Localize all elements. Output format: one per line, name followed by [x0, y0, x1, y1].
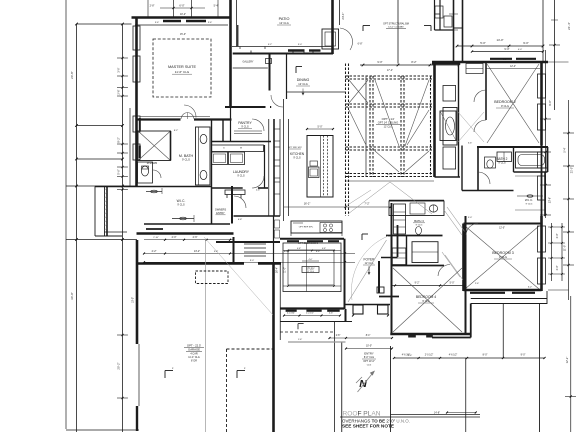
top dim ticks master wall [160, 7, 205, 9]
pantry bottom wall [212, 141, 272, 143]
master top window sill 2 [186, 20, 206, 23]
wic-garage dim row 1 [144, 239, 233, 241]
svg-text:14'-8": 14'-8" [434, 412, 440, 415]
entry dim row y315 [284, 315, 340, 317]
kitchen east counter wall [389, 200, 444, 202]
pantry left wall [230, 108, 232, 142]
svg-text:KITCHEN: KITCHEN [290, 152, 305, 156]
dining arrow mark [302, 89, 304, 95]
svg-text:BATH 2: BATH 2 [497, 157, 508, 161]
mud room boxes [275, 220, 280, 228]
powder south wall [381, 257, 398, 259]
svg-text:MASTER SUITE: MASTER SUITE [168, 65, 197, 69]
svg-text:4'-0": 4'-0" [309, 259, 313, 261]
bath2 toilet [485, 157, 496, 168]
svg-text:OPT - 14': OPT - 14' [382, 117, 395, 121]
svg-text:6'-8": 6'-8" [358, 43, 363, 46]
svg-text:8'-0": 8'-0" [483, 354, 488, 357]
svg-text:4'-0": 4'-0" [172, 236, 177, 239]
svg-text:OPT REF SPC: OPT REF SPC [299, 227, 314, 229]
hall built-in box bottom [443, 147, 456, 169]
hall east wall x458 [458, 64, 460, 178]
study top wall sills [287, 240, 299, 242]
svg-text:9'-0": 9'-0" [521, 354, 526, 357]
svg-text:16'-4": 16'-4" [276, 267, 279, 273]
hall built-in box top [443, 86, 456, 102]
garage sight diagonal [204, 237, 273, 315]
kitchen island [307, 136, 333, 198]
owners entry west wall [231, 186, 233, 224]
svg-text:8'-2": 8'-2" [174, 130, 179, 132]
entry dim row y338 [330, 337, 393, 339]
garage dashed opt left [226, 349, 228, 432]
patio mullion ticks [250, 51, 252, 54]
entry line x341 [341, 342, 343, 432]
svg-text:9'-0": 9'-0" [377, 60, 382, 64]
right lower dim line x570 [570, 296, 572, 432]
study interior dim ticks [302, 260, 319, 262]
entry dim row y348 [346, 348, 392, 350]
study bottom wall [280, 307, 344, 309]
master suite right wall x230 [229, 0, 232, 108]
great room ceiling diagonals [349, 80, 368, 103]
great room dashed row top [346, 75, 435, 77]
porch south jog wall [432, 337, 471, 339]
bedroom4 ceiling X [393, 268, 462, 332]
study tray rect inner [288, 250, 334, 285]
kitchen east counter [389, 201, 444, 216]
svg-text:STUDY: STUDY [306, 268, 315, 271]
svg-text:11'-0": 11'-0" [285, 267, 287, 273]
lot line x465 [465, 358, 467, 432]
svg-text:9' CLG: 9' CLG [416, 225, 423, 227]
attic access dashed box [196, 271, 229, 284]
bedroom3 door arc [466, 224, 478, 236]
svg-text:9'-0": 9'-0" [504, 47, 509, 51]
foyer ceiling bracket [361, 234, 363, 240]
wic2 right wall [544, 172, 546, 216]
foyer arrow [368, 266, 370, 274]
ceiling corner bracket great room left [362, 26, 364, 32]
island dashed opt lines [323, 136, 325, 198]
svg-text:12' CLG: 12' CLG [298, 82, 307, 86]
bedroom2 top exterior wall [432, 61, 548, 64]
foyer sight diagonal [348, 240, 387, 302]
foyer arrow mark [368, 267, 370, 274]
svg-text:15'-0": 15'-0" [180, 33, 186, 36]
svg-text:2'-8": 2'-8" [150, 5, 155, 8]
garage right wall [272, 264, 275, 432]
svg-text:8'-0" CLG: 8'-0" CLG [364, 356, 374, 359]
svg-text:1'-6": 1'-6" [298, 339, 303, 341]
bath3 bottom wall [392, 265, 445, 267]
laundry bottom wall [212, 187, 243, 189]
master double door arcs [181, 113, 188, 120]
svg-text:8'-2": 8'-2" [411, 60, 416, 64]
bedroom2 ceiling X [487, 64, 539, 143]
bed2 interior dim [486, 68, 540, 70]
study bottom dim ticks [283, 285, 341, 287]
right wall window box 3 [538, 152, 546, 168]
svg-text:14'-0": 14'-0" [496, 38, 503, 42]
porch east wall [470, 304, 472, 338]
top extension line x218 [217, 0, 219, 18]
svg-text:12' CLG: 12' CLG [279, 21, 288, 25]
mbath mid wall y135 [137, 130, 139, 132]
laundry door arc [252, 176, 264, 188]
svg-text:4'-2": 4'-2" [152, 250, 157, 253]
bath3 west wall [391, 203, 393, 334]
svg-text:12' CLG: 12' CLG [307, 271, 314, 273]
svg-text:SEE SHEET FOR NOTE: SEE SHEET FOR NOTE [342, 424, 394, 429]
top extension line x148 [147, 0, 149, 18]
bedroom4 window jambs [409, 335, 416, 337]
garage top wall [137, 262, 244, 264]
svg-text:DINING: DINING [297, 78, 310, 82]
wic-garage dim row 2 [144, 253, 355, 255]
svg-text:9' CLG: 9' CLG [526, 204, 533, 206]
pantry top wall [225, 106, 266, 108]
svg-text:2'-0 1/2": 2'-0 1/2" [425, 355, 434, 357]
right wall window box 4 [538, 176, 546, 200]
svg-text:12'-4": 12'-4" [510, 66, 516, 68]
fireplace box [443, 108, 457, 146]
vanity sink 2 [200, 170, 207, 179]
mud wall x273 upper [273, 216, 275, 264]
svg-text:9'-2": 9'-2" [117, 137, 121, 143]
svg-text:16'-2": 16'-2" [304, 202, 311, 206]
svg-text:3'-6": 3'-6" [468, 143, 473, 145]
svg-text:3'-0": 3'-0" [117, 67, 121, 72]
right wall window box 5 [538, 226, 546, 252]
left dim tick y186 [66, 185, 137, 187]
bath2 right wall [547, 147, 549, 172]
top-left dimension line y24 [77, 23, 132, 25]
patio floor edge [232, 46, 332, 48]
top-right dim line y46 [457, 45, 543, 47]
master left window sills [139, 118, 141, 131]
svg-text:6'-8": 6'-8" [238, 219, 243, 221]
entry column dim ticks [352, 315, 354, 317]
left dim small ticks on x122 [117, 57, 128, 59]
svg-text:5'-4": 5'-4" [563, 147, 567, 152]
upper closet boxes [435, 6, 443, 18]
ceiling corner bracket great room right [430, 26, 432, 32]
upper chase left wall [434, 0, 436, 30]
right dim line x568 [568, 100, 570, 300]
garage left wall lower [136, 406, 138, 431]
svg-text:3'-6": 3'-6" [208, 22, 213, 24]
garage entry steps [244, 243, 266, 245]
wic closet rod 2 [172, 218, 194, 220]
grid line x543 [542, 0, 544, 62]
svg-text:12' CLG: 12' CLG [384, 126, 393, 129]
wic window sill [146, 228, 163, 230]
svg-text:2'-6": 2'-6" [475, 283, 480, 285]
right edge tick rows [548, 61, 569, 63]
porch column right [378, 305, 389, 314]
svg-text:5'-8": 5'-8" [214, 251, 219, 253]
hall door arc bed2 [474, 90, 486, 102]
svg-text:M. BATH: M. BATH [179, 154, 194, 158]
vestibule door box [266, 59, 272, 64]
svg-text:9'-0": 9'-0" [548, 100, 552, 106]
entry west line [334, 322, 336, 432]
great room east wall [433, 64, 436, 178]
pantry shelves [234, 130, 262, 132]
left dim tick y125 [77, 125, 123, 127]
svg-text:OPT W/F SPC: OPT W/F SPC [288, 147, 303, 149]
bedroom3 top wall [464, 223, 542, 225]
bedroom2 west wall [485, 62, 487, 120]
study east wall / foyer west [344, 239, 346, 309]
patio column box [322, 29, 339, 49]
washer box [212, 152, 228, 165]
kitchen counter tick marks [290, 233, 292, 236]
svg-text:10'-2": 10'-2" [180, 13, 186, 16]
svg-text:9' CLG: 9' CLG [501, 104, 509, 108]
owners hall wall y240 [216, 241, 280, 243]
mbath wall y186 [95, 186, 212, 188]
great room dashed beam col4 [430, 76, 432, 177]
wic2 rod [517, 195, 543, 197]
bath3 toilet [416, 227, 422, 235]
svg-text:5'-0": 5'-0" [450, 282, 455, 285]
porch side wall [379, 296, 399, 298]
patio step ticks [239, 47, 241, 50]
entry sidewalk grey line [288, 341, 346, 343]
svg-text:7'-2": 7'-2" [364, 202, 369, 206]
svg-text:W.I.C.: W.I.C. [177, 199, 186, 203]
entry west wall stub [345, 309, 347, 322]
svg-text:OPT 10'-0": OPT 10'-0" [363, 360, 375, 363]
bath3 cabinet [394, 204, 406, 234]
master vanity cabinet [196, 127, 211, 185]
svg-text:11'-0": 11'-0" [563, 245, 567, 251]
svg-text:9' CLG: 9' CLG [241, 126, 249, 129]
wic-garage dim row 3 [144, 261, 355, 263]
svg-text:OPT 14' CEILING: OPT 14' CEILING [378, 121, 398, 125]
svg-text:24'-1": 24'-1" [341, 12, 345, 19]
great room dashed beam left [345, 64, 347, 217]
bedroom3 bottom wall [464, 289, 542, 292]
vestibule east wall [269, 54, 271, 91]
top window dim line x191 [191, 0, 193, 18]
garage left wall upper [136, 240, 139, 344]
master bottom wall [137, 118, 181, 120]
great room top wall stub [432, 62, 460, 64]
grid line x398 [397, 0, 399, 64]
bedroom4 closet [392, 248, 406, 265]
master tray ceiling dashed [153, 39, 211, 97]
house bottom left wall [66, 429, 139, 431]
laundry cabinet row [212, 145, 264, 152]
garage ceiling bracket right [236, 371, 238, 379]
entry east wall [378, 261, 380, 293]
svg-text:GALLERY: GALLERY [243, 61, 254, 64]
wic2 wall y190 [462, 190, 514, 192]
svg-text:5'-0": 5'-0" [468, 217, 473, 219]
dining kitchen break line [287, 91, 346, 93]
porch column left [353, 305, 363, 314]
dimension extension line x76 [76, 24, 78, 432]
bath2 mid wall [513, 147, 515, 172]
dishwasher box [410, 203, 425, 214]
lot line y414 [391, 414, 481, 416]
porch front wall [345, 304, 391, 306]
bath2 door arc [478, 172, 490, 184]
right wall window box 6 [538, 258, 546, 284]
hall gallery diagonals [444, 210, 462, 235]
dryer box [229, 152, 245, 165]
owners entry door arc [234, 196, 246, 208]
bedroom2 right exterior wall [540, 62, 543, 146]
dining west wall [286, 54, 288, 100]
upper closet chase walls [439, 0, 441, 30]
svg-text:13'-6": 13'-6" [549, 197, 552, 203]
entry east line [390, 346, 392, 432]
svg-text:20'-2": 20'-2" [117, 362, 121, 369]
kitchen back counter [291, 221, 342, 233]
svg-text:9' CLG: 9' CLG [177, 204, 185, 207]
svg-text:4'-0": 4'-0" [518, 49, 523, 51]
study label box [302, 267, 319, 273]
svg-text:13'-2": 13'-2" [194, 250, 200, 253]
svg-text:8' DR: 8' DR [191, 360, 197, 363]
svg-text:5'-6": 5'-6" [117, 169, 121, 175]
bedroom3 west wall [462, 224, 465, 292]
svg-text:9' CLG: 9' CLG [498, 162, 506, 165]
wic small hooks [161, 188, 163, 194]
small dim line y413 [447, 412, 476, 414]
patio door arc [340, 28, 353, 50]
owners hall wall x233 lower [233, 237, 235, 264]
svg-text:PATIO: PATIO [279, 17, 290, 21]
bath2 top wall [477, 146, 548, 148]
great room solid post line [365, 76, 367, 177]
right wall lower segment [541, 146, 543, 217]
svg-text:34'-0": 34'-0" [70, 292, 74, 300]
svg-text:3'-6": 3'-6" [155, 22, 160, 24]
bedroom3 bottom window sills [470, 292, 505, 294]
svg-text:4'-6": 4'-6" [193, 236, 198, 239]
svg-text:14'-6": 14'-6" [387, 172, 394, 176]
island sink [309, 167, 320, 178]
svg-text:M.SHWR: M.SHWR [147, 162, 158, 165]
svg-text:CLG: CLG [367, 365, 372, 367]
svg-text:5'-2": 5'-2" [503, 59, 508, 61]
top-right dim line y51 [472, 51, 543, 53]
study inner dim row [283, 250, 341, 252]
right top tick x554 [549, 44, 560, 46]
master left window box 2 [133, 56, 140, 82]
right edge dim line x554 [554, 0, 556, 110]
hall sight diagonals [458, 112, 484, 142]
dining ceiling bracket [295, 67, 297, 74]
svg-text:ENTRY: ENTRY [364, 352, 374, 356]
left inner dim line x130 [129, 108, 131, 186]
study south bracket [297, 324, 299, 330]
stoop hatch [105, 188, 108, 190]
great room dashed row 2 [346, 103, 435, 105]
left dim tick y159 [77, 158, 123, 160]
svg-text:5'-2": 5'-2" [268, 44, 273, 46]
dimension line x122 [122, 24, 124, 432]
great room dashed beam col2 [369, 76, 371, 177]
bed2 closet small boxes [466, 64, 483, 74]
great room top dim y65 [360, 64, 459, 66]
svg-text:2'-10": 2'-10" [153, 237, 159, 239]
study vertical ext line [306, 243, 308, 292]
svg-text:3'-0": 3'-0" [556, 233, 559, 238]
svg-text:ENTRY: ENTRY [216, 212, 225, 215]
garage dashed opt top [227, 348, 274, 350]
svg-text:9'-0": 9'-0" [523, 41, 529, 45]
svg-text:GARAGE: GARAGE [188, 348, 200, 352]
svg-text:4'-6 3/4": 4'-6 3/4" [287, 313, 295, 315]
kitchen west wall [283, 99, 285, 221]
bath2 hall wall x462 [461, 146, 463, 191]
island dim line [307, 128, 333, 130]
svg-text:8'-4": 8'-4" [366, 335, 371, 337]
laundry right wall [264, 145, 266, 188]
entry east wall base [377, 287, 384, 293]
bedroom2 door arc [474, 120, 486, 132]
bedroom4 dim row [392, 285, 466, 287]
top window dim line x173 [173, 0, 175, 18]
master wc toilet [138, 162, 153, 183]
bedroom3 right exterior wall [540, 216, 543, 291]
mbath opening arc [184, 105, 196, 118]
master top window sill 1 [163, 20, 181, 23]
lot line x503 [502, 304, 504, 358]
master left window box 4 [133, 144, 140, 160]
svg-text:4'-6": 4'-6" [408, 355, 413, 357]
svg-text:BEDROOM 2: BEDROOM 2 [494, 100, 516, 104]
owners hall cabinets [268, 119, 270, 216]
wic closet rod 1 [146, 191, 162, 193]
svg-text:2'-6": 2'-6" [256, 190, 261, 192]
svg-text:3'-0": 3'-0" [298, 44, 303, 46]
foyer sight arc [351, 236, 388, 300]
svg-text:9'-0": 9'-0" [250, 260, 255, 262]
svg-text:10'-0": 10'-0" [132, 297, 135, 303]
svg-text:2'-0 1/2": 2'-0 1/2" [306, 313, 314, 315]
svg-text:5'-0": 5'-0" [318, 126, 323, 129]
svg-text:W.I.C.: W.I.C. [525, 198, 533, 202]
dining door arc [271, 95, 283, 107]
svg-text:21'-0": 21'-0" [571, 167, 574, 173]
vanity sink 1 [200, 134, 207, 143]
upper hall ticks [449, 29, 458, 31]
patio wall pair x238 [237, 25, 239, 47]
right wall window box 2 [538, 104, 546, 130]
left dim tick y239 [66, 239, 137, 241]
master shower [138, 131, 171, 161]
bedroom3 porch lines [471, 298, 547, 300]
svg-text:2'-8": 2'-8" [336, 335, 341, 337]
svg-text:6'-4": 6'-4" [316, 251, 321, 253]
svg-text:9' CLG: 9' CLG [237, 175, 245, 178]
master left window box 1 [133, 26, 140, 50]
study window sills bottom [286, 310, 297, 312]
svg-text:4'-8": 4'-8" [297, 248, 301, 250]
mbath wall x211 [211, 119, 213, 188]
svg-text:3'-0": 3'-0" [556, 265, 559, 270]
wic2 shelves [515, 175, 545, 177]
dining window sills [288, 49, 305, 51]
kitchen sink double [429, 205, 437, 212]
